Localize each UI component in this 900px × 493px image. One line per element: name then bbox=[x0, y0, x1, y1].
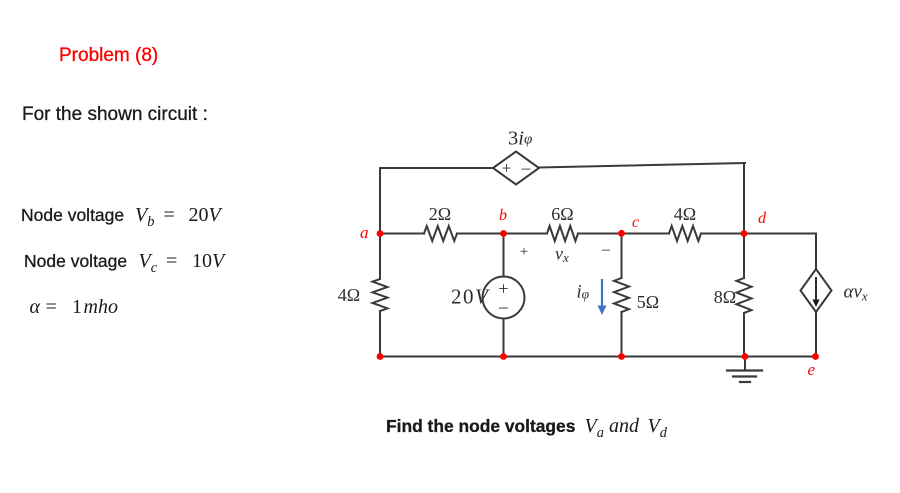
svg-text:c: c bbox=[632, 214, 639, 231]
svg-text:6Ω: 6Ω bbox=[551, 204, 573, 224]
svg-text:a: a bbox=[360, 223, 369, 242]
svg-text:–: – bbox=[498, 297, 509, 317]
svg-text:4Ω: 4Ω bbox=[338, 285, 360, 305]
svg-text:–: – bbox=[521, 158, 531, 177]
svg-text:5Ω: 5Ω bbox=[637, 292, 659, 312]
svg-text:4Ω: 4Ω bbox=[674, 204, 696, 224]
svg-text:+: + bbox=[502, 159, 512, 178]
svg-text:+: + bbox=[498, 279, 508, 299]
svg-text:b: b bbox=[499, 207, 507, 224]
svg-text:20V: 20V bbox=[451, 285, 490, 309]
svg-text:3iφ: 3iφ bbox=[508, 128, 532, 150]
svg-text:+: + bbox=[520, 244, 528, 260]
svg-text:iφ: iφ bbox=[577, 283, 590, 303]
svg-text:vx: vx bbox=[555, 244, 569, 266]
svg-text:8Ω: 8Ω bbox=[714, 287, 736, 307]
svg-text:2Ω: 2Ω bbox=[429, 204, 451, 224]
svg-text:d: d bbox=[758, 210, 767, 227]
svg-text:–: – bbox=[601, 241, 611, 258]
svg-text:αvx: αvx bbox=[844, 282, 868, 304]
svg-text:e: e bbox=[808, 360, 816, 379]
